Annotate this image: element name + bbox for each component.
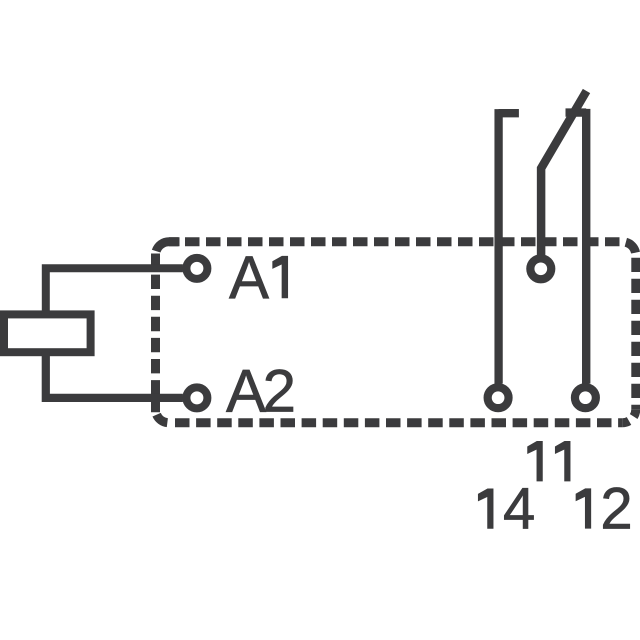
movable contact arm pin 11 xyxy=(541,91,586,256)
terminal A2 xyxy=(186,387,207,408)
digit 1 of A1 xyxy=(273,256,288,298)
digit 1 xyxy=(555,441,570,481)
terminal A1 xyxy=(186,258,207,279)
relay enclosure dashed outline: left edge xyxy=(151,254,160,413)
label A1 xyxy=(229,244,288,311)
wire coil to A2 xyxy=(46,352,183,398)
terminal 12 xyxy=(575,387,596,408)
relay enclosure dashed outline: top-left corner xyxy=(156,242,180,256)
terminal 14 xyxy=(488,387,509,408)
svg-text:4: 4 xyxy=(503,476,535,541)
digit 1 xyxy=(576,489,591,529)
svg-text:2: 2 xyxy=(600,476,632,541)
svg-text:A: A xyxy=(226,357,266,424)
label 11 xyxy=(528,441,571,481)
svg-text:A: A xyxy=(229,244,269,311)
terminal 11 xyxy=(530,258,551,279)
label A2 xyxy=(226,357,296,424)
pin 12 wire xyxy=(566,109,587,384)
relay enclosure dashed outline: top-right corner xyxy=(622,242,636,256)
relay enclosure dashed outline: right edge xyxy=(631,255,640,409)
label 12 xyxy=(576,476,633,541)
relay enclosure dashed outline: bottom-right corner xyxy=(622,409,636,423)
svg-text:2: 2 xyxy=(263,357,296,424)
digit 1 xyxy=(478,489,493,529)
relay enclosure dashed outline: bottom edge xyxy=(169,418,622,427)
digit 1 xyxy=(528,441,543,481)
pin 14 wire xyxy=(499,109,519,384)
relay enclosure dashed outline: top edge xyxy=(169,237,622,246)
relay enclosure dashed outline: bottom-left corner xyxy=(156,409,170,423)
wire coil to A1 xyxy=(46,268,183,315)
label 14 xyxy=(478,476,535,541)
coil L1 xyxy=(4,314,91,352)
